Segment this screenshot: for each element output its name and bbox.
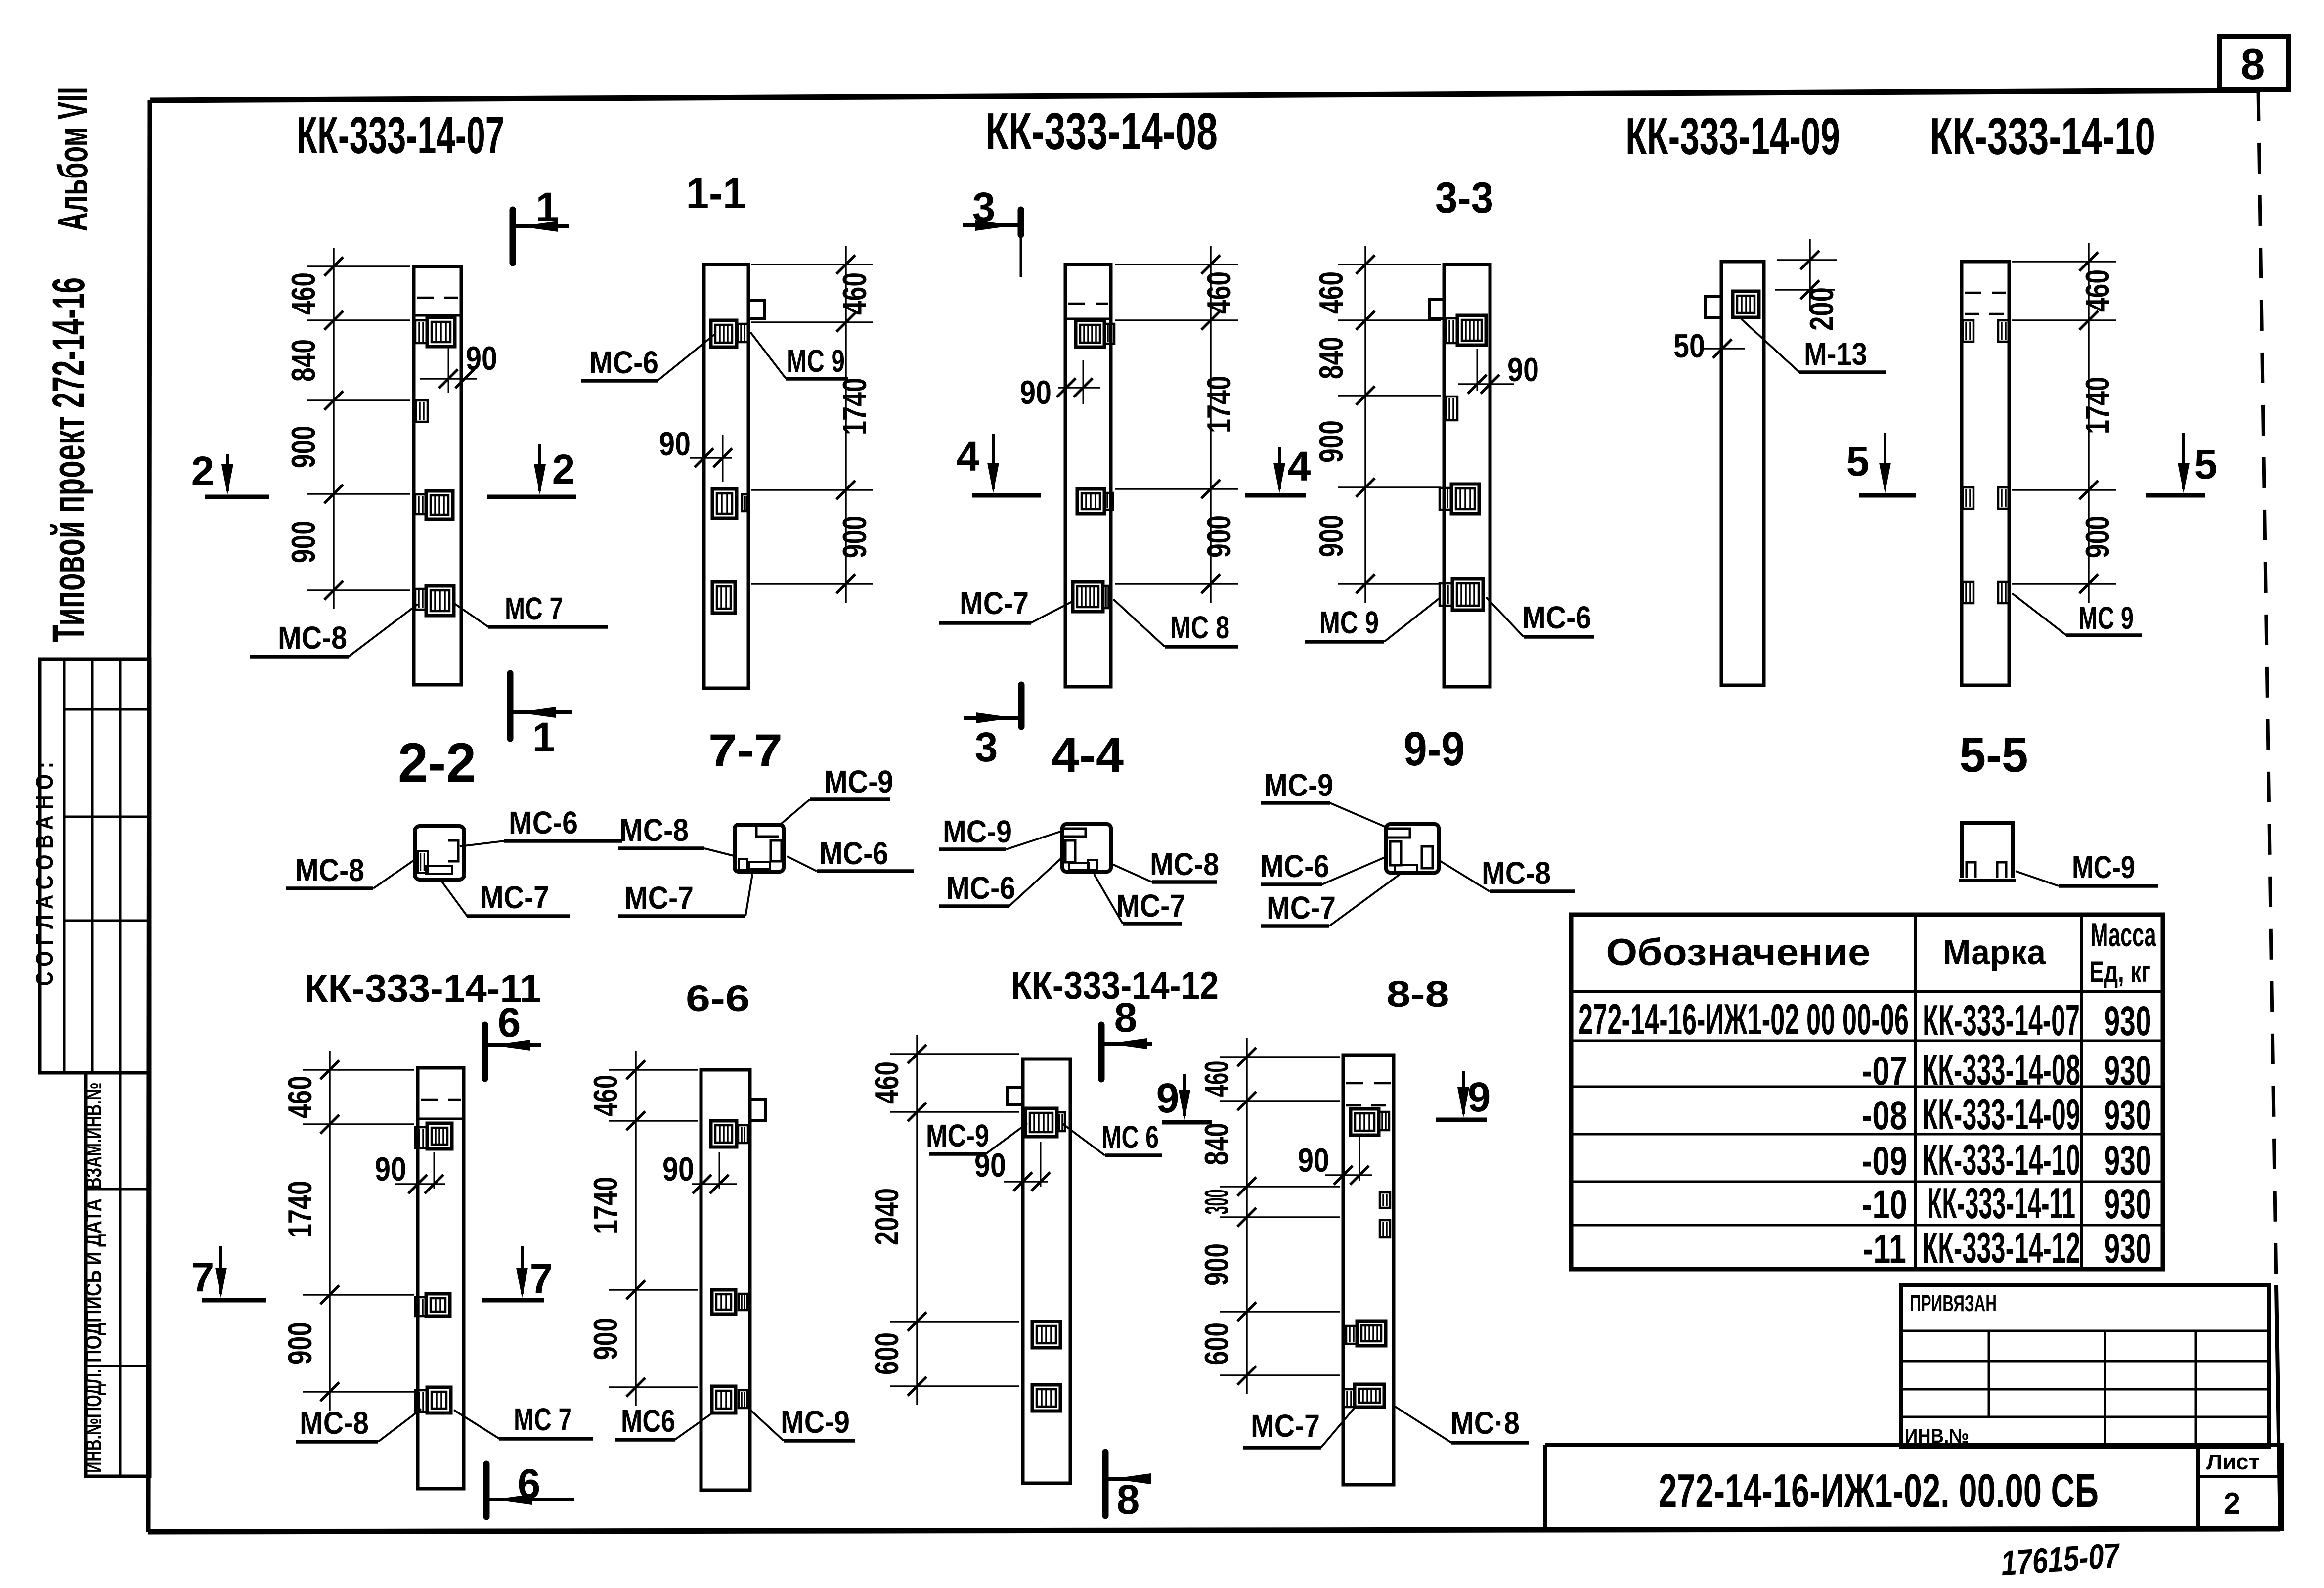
column КК-333-14-08 outline (1065, 265, 1111, 687)
svg-text:-07: -07 (1862, 1049, 1907, 1094)
svg-text:Обозначение: Обозначение (1606, 931, 1871, 973)
section mark 9 top (1156, 1074, 1212, 1122)
table header (1606, 916, 2157, 988)
svg-text:2040: 2040 (868, 1188, 906, 1245)
dimension 200 (1775, 239, 1841, 331)
svg-text:1740: 1740 (281, 1181, 319, 1238)
dimension chain 460/840/300/900/600 (1198, 1038, 1340, 1394)
svg-text:МС-6: МС-6 (819, 836, 888, 871)
section 2-2 detail (415, 826, 464, 880)
svg-text:МС-8: МС-8 (278, 620, 347, 656)
svg-text:840: 840 (1198, 1123, 1235, 1165)
svg-text:3: 3 (975, 724, 998, 770)
svg-text:840: 840 (1313, 337, 1350, 379)
dimension 90 (420, 340, 497, 393)
dimension 50 (1673, 327, 1745, 365)
dimension 90 (659, 425, 732, 482)
svg-text:4: 4 (957, 433, 980, 480)
svg-text:МС-9: МС-9 (926, 1118, 989, 1153)
svg-text:КК-333-14-12: КК-333-14-12 (1922, 1223, 2080, 1272)
svg-text:900: 900 (285, 521, 322, 563)
svg-text:КК-333-14-09: КК-333-14-09 (1625, 107, 1840, 166)
svg-text:3: 3 (972, 184, 996, 230)
svg-text:460: 460 (1200, 271, 1238, 314)
svg-text:МС 7: МС 7 (514, 1402, 572, 1437)
svg-text:900: 900 (285, 426, 322, 468)
svg-text:МС-6: МС-6 (946, 870, 1015, 906)
embed plate bottom (1032, 1385, 1060, 1411)
section mark 8 bottom (1105, 1452, 1151, 1523)
section mark 2 left (191, 448, 269, 497)
svg-text:7: 7 (530, 1255, 553, 1302)
svg-text:6: 6 (498, 999, 521, 1046)
section 9-9 detail (1386, 824, 1439, 873)
section mark 1 bottom (510, 673, 572, 760)
svg-text:272-14-16-ИЖ1-02 00 00-06: 272-14-16-ИЖ1-02 00 00-06 (1579, 995, 1909, 1044)
dimension chain 460/1740/900 (1115, 246, 1238, 603)
svg-text:90: 90 (1298, 1142, 1329, 1179)
svg-text:СОГЛАСОВАНО:: СОГЛАСОВАНО: (31, 756, 58, 986)
svg-text:2-2: 2-2 (398, 732, 476, 794)
svg-text:ПОДПИСЬ И ДАТА: ПОДПИСЬ И ДАТА (81, 1198, 106, 1363)
embed plate bottom (712, 1386, 747, 1413)
section mark 6 bottom (486, 1460, 574, 1517)
svg-text:1740: 1740 (836, 378, 874, 435)
section mark 9 right (1436, 1071, 1491, 1120)
embed flange pair middle (1963, 487, 2009, 509)
approval box Согласовано (31, 659, 150, 1073)
svg-text:Марка: Марка (1943, 933, 2046, 971)
svg-text:МС-7: МС-7 (960, 585, 1029, 621)
svg-text:КК-333-14-08: КК-333-14-08 (1922, 1045, 2080, 1094)
dimension 90 (974, 1142, 1050, 1191)
column view 3-3 outline (1429, 265, 1490, 687)
embed plate bottom (1440, 579, 1483, 610)
svg-text:МС-9: МС-9 (2072, 849, 2135, 885)
dimension chain 460/1740/900 (751, 246, 874, 603)
dimension 90 (662, 1150, 737, 1193)
embed plate bottom (712, 582, 735, 613)
svg-text:9: 9 (1468, 1074, 1491, 1120)
embed plate bottom (1073, 582, 1111, 612)
svg-text:900: 900 (587, 1318, 624, 1360)
svg-text:-08: -08 (1862, 1093, 1907, 1138)
section mark 3 top (963, 184, 1021, 277)
embed plate М-13 (1733, 291, 1759, 317)
section 7-7 detail (735, 825, 784, 872)
svg-text:МС-8: МС-8 (1150, 846, 1219, 882)
svg-text:900: 900 (1313, 515, 1350, 557)
svg-text:МС 7: МС 7 (505, 591, 563, 626)
svg-text:460: 460 (1313, 271, 1350, 314)
svg-text:460: 460 (285, 272, 322, 315)
svg-text:930: 930 (2105, 1047, 2151, 1094)
embed plate middle (415, 1294, 450, 1316)
svg-text:КК-333-14-10: КК-333-14-10 (1922, 1135, 2080, 1184)
embed plate bottom (415, 1387, 451, 1413)
svg-text:2: 2 (191, 448, 215, 494)
svg-text:Альбом VII: Альбом VII (49, 87, 96, 231)
svg-text:1740: 1740 (587, 1177, 624, 1234)
embed small flange (1446, 397, 1457, 420)
svg-text:600: 600 (868, 1332, 906, 1375)
svg-text:КК-333-14-07: КК-333-14-07 (297, 106, 504, 165)
embed plate top (415, 1123, 452, 1149)
svg-text:МС-6: МС-6 (589, 345, 658, 380)
svg-text:1: 1 (532, 714, 556, 760)
svg-text:90: 90 (659, 425, 691, 463)
column КК-333-14-11 outline (418, 1068, 464, 1489)
embed plate top (1446, 315, 1486, 345)
svg-text:460: 460 (587, 1075, 624, 1116)
svg-text:МС-7: МС-7 (1251, 1408, 1320, 1444)
table row 2 (1862, 1045, 2151, 1094)
svg-text:МС-8: МС-8 (619, 812, 689, 848)
dimension chain 460/2040/600 (868, 1035, 1019, 1405)
svg-text:2: 2 (552, 446, 575, 492)
section mark 5 left (1846, 433, 1916, 495)
svg-text:МС 9: МС 9 (2078, 600, 2134, 636)
svg-text:9-9: 9-9 (1403, 722, 1465, 776)
svg-text:930: 930 (2105, 1181, 2151, 1227)
embed flange b (1380, 1220, 1390, 1237)
svg-text:5-5: 5-5 (1960, 727, 2028, 783)
column view 8-8 outline (1343, 1055, 1394, 1485)
embed plate top МС-9/МС6 (1025, 1108, 1065, 1137)
sheet number box Лист 2 (2198, 1445, 2282, 1529)
section mark 6 top (485, 999, 541, 1079)
page number box 8 (2220, 37, 2289, 89)
embed plate top (1076, 320, 1114, 347)
svg-text:МС-8: МС-8 (1482, 855, 1551, 891)
svg-text:-11: -11 (1863, 1227, 1906, 1272)
embed plate top with flange (711, 320, 748, 347)
column view 6-6 outline (701, 1070, 766, 1490)
section mark 2 right (487, 444, 576, 497)
svg-text:930: 930 (2105, 1092, 2151, 1138)
svg-text:-09: -09 (1862, 1139, 1907, 1184)
svg-text:8: 8 (1117, 1476, 1140, 1523)
column КК-333-14-09 outline (1705, 262, 1764, 685)
dimension 90 (1020, 360, 1100, 411)
svg-text:1740: 1740 (1200, 376, 1238, 433)
svg-text:ПРИВЯЗАН: ПРИВЯЗАН (1910, 1290, 1997, 1316)
section 4-4 detail (1062, 824, 1111, 872)
svg-text:900: 900 (2079, 516, 2116, 558)
svg-text:МС 6: МС 6 (1101, 1119, 1159, 1155)
embed flange pair top (1963, 320, 2009, 342)
svg-text:МС-6: МС-6 (1260, 848, 1329, 884)
dimension 90 (1458, 349, 1539, 394)
svg-text:90: 90 (662, 1150, 694, 1188)
svg-text:КК-333-14-09: КК-333-14-09 (1922, 1090, 2080, 1139)
svg-text:90: 90 (1507, 351, 1539, 389)
svg-text:6: 6 (518, 1460, 541, 1507)
specification table (1571, 915, 2163, 1269)
svg-text:8: 8 (2241, 40, 2265, 88)
svg-text:МС·8: МС·8 (1450, 1405, 1520, 1441)
section mark 7 right (482, 1246, 553, 1302)
svg-text:-10: -10 (1862, 1182, 1907, 1227)
svg-text:МС-8: МС-8 (295, 852, 364, 888)
svg-text:8-8: 8-8 (1387, 973, 1449, 1015)
embed flange pair bottom (1963, 582, 2009, 603)
svg-text:М-13: М-13 (1804, 336, 1867, 372)
section mark 7 left (191, 1246, 266, 1300)
svg-text:КК-333-14-07: КК-333-14-07 (1923, 996, 2080, 1045)
svg-text:900: 900 (1313, 420, 1350, 463)
svg-text:900: 900 (1200, 515, 1238, 558)
column КК-333-14-12 outline (1007, 1059, 1070, 1483)
column КК-333-14-07 outline (414, 266, 461, 685)
svg-text:460: 460 (1198, 1061, 1235, 1097)
svg-text:МС-6: МС-6 (509, 805, 578, 840)
svg-text:460: 460 (281, 1076, 319, 1118)
svg-text:5: 5 (1846, 438, 1870, 485)
svg-text:МС-7: МС-7 (624, 880, 694, 916)
embed plate top (1351, 1109, 1389, 1135)
svg-text:Ед, кг: Ед, кг (2089, 955, 2150, 988)
svg-text:7-7: 7-7 (708, 725, 783, 776)
dimension 90 (375, 1150, 445, 1193)
svg-text:8: 8 (1114, 994, 1138, 1041)
table row 3 (1862, 1090, 2151, 1139)
dimension chain 460/1740/900 (2012, 243, 2116, 603)
svg-text:200: 200 (1803, 287, 1841, 331)
svg-text:6-6: 6-6 (686, 978, 750, 1019)
section mark 8 top (1101, 994, 1152, 1079)
svg-text:900: 900 (281, 1322, 319, 1365)
svg-text:90: 90 (375, 1150, 406, 1188)
svg-text:930: 930 (2105, 998, 2151, 1044)
embed plate bottom (415, 586, 454, 616)
svg-text:272-14-16-ИЖ1-02. 00.00 СБ: 272-14-16-ИЖ1-02. 00.00 СБ (1659, 1464, 2099, 1517)
dimension chain 460/1740/900 (281, 1051, 414, 1411)
section mark 4 left (957, 433, 1041, 495)
svg-text:МС-7: МС-7 (1116, 888, 1185, 924)
svg-text:Типовой проект 272-14-16: Типовой проект 272-14-16 (44, 277, 94, 642)
svg-text:МС 8: МС 8 (1170, 610, 1229, 645)
margin stamp column ИНВ/ПОДПИСЬ/ВЗАМ (81, 1073, 150, 1476)
svg-text:1740: 1740 (2079, 377, 2116, 434)
svg-text:840: 840 (285, 339, 322, 382)
svg-text:9: 9 (1156, 1075, 1180, 1121)
svg-text:900: 900 (1198, 1243, 1235, 1286)
svg-text:КК-333-14-08: КК-333-14-08 (985, 102, 1218, 161)
svg-text:КК-333-14-10: КК-333-14-10 (1930, 107, 2155, 166)
svg-text:МС 9: МС 9 (1319, 605, 1379, 640)
svg-text:900: 900 (836, 516, 874, 558)
svg-text:1-1: 1-1 (686, 169, 746, 218)
svg-text:МС6: МС6 (621, 1403, 675, 1439)
svg-text:460: 460 (836, 272, 874, 315)
svg-text:90: 90 (1020, 374, 1052, 411)
embed plate top (711, 1121, 748, 1147)
svg-text:КК-333-14-11: КК-333-14-11 (1927, 1179, 2075, 1228)
svg-text:930: 930 (2105, 1137, 2151, 1184)
embed small flange (416, 400, 428, 422)
stamp box Привязан (1901, 1285, 2269, 1447)
svg-text:МС-9: МС-9 (1264, 767, 1333, 803)
svg-text:Лист: Лист (2206, 1450, 2260, 1474)
svg-text:МС 9: МС 9 (787, 343, 845, 379)
svg-text:ВЗАМ.ИНВ.№: ВЗАМ.ИНВ.№ (81, 1083, 106, 1189)
embed plate middle (1440, 484, 1479, 514)
svg-text:7: 7 (191, 1254, 215, 1300)
svg-text:4-4: 4-4 (1052, 727, 1124, 782)
svg-text:МС-9: МС-9 (824, 764, 893, 799)
svg-text:МС-8: МС-8 (300, 1405, 369, 1441)
svg-text:3-3: 3-3 (1435, 173, 1493, 222)
svg-text:4: 4 (1288, 443, 1311, 489)
section mark 1 top (513, 184, 569, 263)
svg-text:ИНВ.№ПОДЛ.: ИНВ.№ПОДЛ. (81, 1369, 106, 1473)
table row 5 (1862, 1179, 2151, 1228)
embed plate bottom (1344, 1384, 1384, 1407)
section 5-5 detail (1959, 823, 2016, 880)
svg-text:600: 600 (1198, 1323, 1235, 1365)
embed plate middle (1077, 489, 1113, 514)
svg-text:930: 930 (2105, 1225, 2151, 1272)
column view 1-1 outline (704, 265, 765, 688)
section mark 3 bottom (964, 682, 1021, 770)
embed flange a (1380, 1192, 1390, 1208)
table row 6 (1863, 1223, 2151, 1272)
svg-text:МС-7: МС-7 (480, 880, 549, 915)
svg-text:1: 1 (536, 184, 559, 230)
svg-text:460: 460 (2079, 269, 2116, 312)
dimension 90 (1298, 1137, 1372, 1185)
table row 4 (1862, 1135, 2151, 1184)
column КК-333-14-10 outline (1962, 262, 2009, 685)
svg-text:300: 300 (1198, 1190, 1235, 1215)
embed МС-8 flange+plate top (415, 317, 455, 347)
svg-text:МС-6: МС-6 (1522, 600, 1591, 635)
svg-text:2: 2 (2224, 1487, 2240, 1521)
section mark 4 right (1245, 443, 1311, 495)
embed plate middle (1032, 1322, 1060, 1348)
embed plate middle (712, 1290, 747, 1314)
svg-text:50: 50 (1673, 327, 1705, 365)
embed plate middle (712, 489, 749, 518)
svg-text:460: 460 (868, 1061, 906, 1104)
dimension chain 460/840/900/900 (285, 248, 410, 609)
dimension chain 460/840/900/900 (1313, 246, 1441, 603)
svg-text:Масса: Масса (2091, 916, 2157, 954)
svg-text:5: 5 (2194, 441, 2218, 487)
svg-text:МС-9: МС-9 (781, 1404, 850, 1440)
svg-text:МС-9: МС-9 (943, 814, 1012, 849)
embed plate mid (1346, 1321, 1386, 1346)
section mark 5 right (2146, 433, 2217, 495)
title block 272-14-16-ИЖ1-02.00.00 СБ (1545, 1445, 2198, 1529)
svg-text:МС-7: МС-7 (1267, 890, 1336, 926)
embed plate middle (415, 491, 453, 519)
dimension chain 460/1740/900 (587, 1051, 698, 1406)
table row 1 (1579, 995, 2151, 1045)
